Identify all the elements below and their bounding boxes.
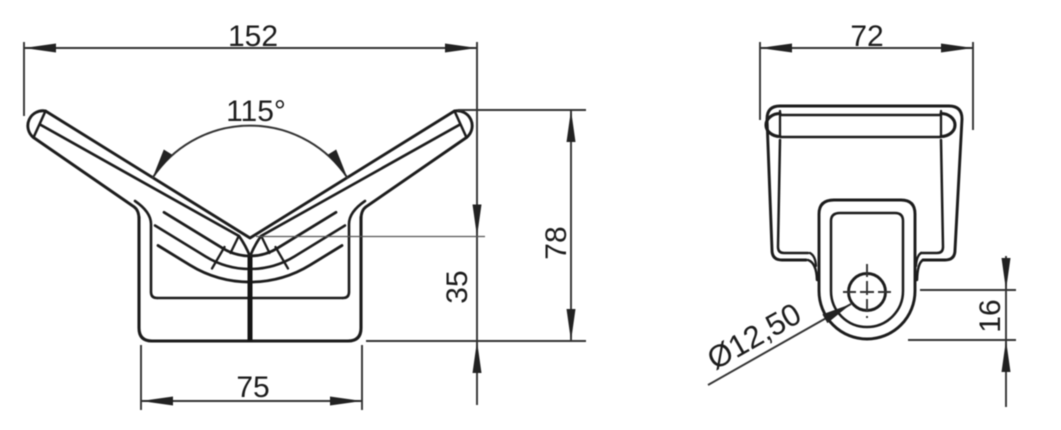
- svg-text:152: 152: [228, 20, 278, 53]
- svg-text:72: 72: [850, 20, 883, 53]
- svg-text:78: 78: [540, 226, 573, 259]
- svg-text:35: 35: [441, 270, 474, 303]
- svg-text:75: 75: [236, 371, 269, 404]
- svg-text:115°: 115°: [226, 95, 286, 128]
- svg-text:16: 16: [974, 299, 1007, 332]
